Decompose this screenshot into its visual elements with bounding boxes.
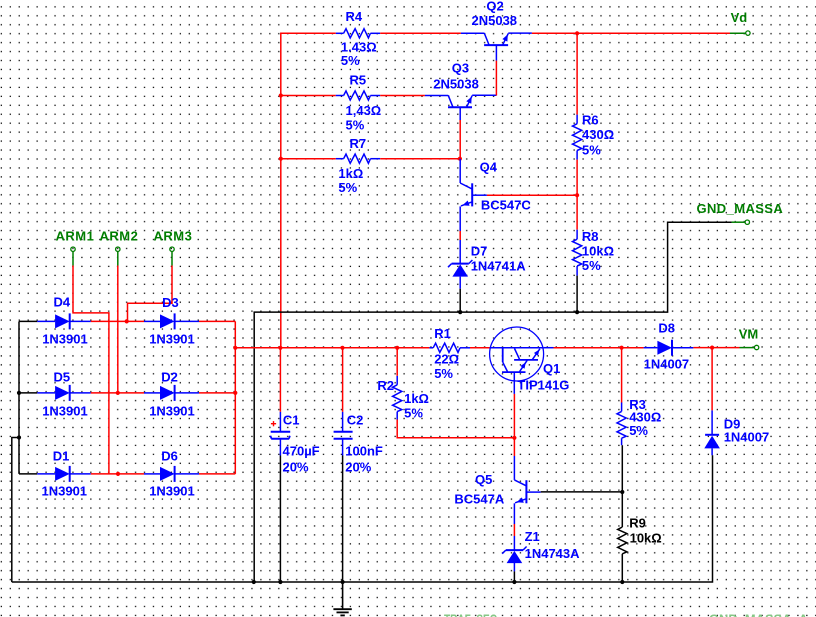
svg-text:R7: R7 bbox=[350, 136, 367, 151]
wire Q4 emitter to D7 bbox=[459, 231, 461, 240]
wire R1 to Q1 bbox=[470, 347, 490, 349]
wire row1 left stub bbox=[19, 320, 37, 322]
svg-text:1N3901: 1N3901 bbox=[149, 331, 195, 346]
wire row2 middle bbox=[91, 392, 144, 394]
svg-text:1N3901: 1N3901 bbox=[42, 403, 88, 418]
junction bbox=[116, 472, 120, 476]
svg-text:R4: R4 bbox=[346, 9, 363, 24]
svg-text:R8: R8 bbox=[582, 229, 599, 244]
wire Q3 base to R7 node bbox=[459, 120, 461, 159]
junction bbox=[620, 580, 624, 584]
diode D6 bbox=[144, 448, 199, 498]
terminal GND_MASSA bbox=[697, 201, 784, 224]
wire Vd net top-left vertical rail bbox=[280, 33, 282, 348]
svg-text:BC547C: BC547C bbox=[481, 197, 531, 212]
junction bbox=[233, 346, 237, 350]
svg-text:10kΩ: 10kΩ bbox=[630, 531, 662, 546]
wire bus to R2 bbox=[396, 348, 398, 376]
wire R3 to R9/Q5-base node bbox=[621, 445, 623, 492]
junction bbox=[278, 346, 282, 350]
svg-text:D8: D8 bbox=[658, 321, 675, 336]
svg-text:TIP141G: TIP141G bbox=[517, 378, 569, 393]
svg-text:1,43Ω: 1,43Ω bbox=[346, 103, 382, 118]
wire R7 to Q3 base node bbox=[380, 158, 460, 160]
svg-text:5%: 5% bbox=[582, 258, 601, 273]
svg-text:Q5: Q5 bbox=[475, 472, 492, 487]
junction bbox=[458, 157, 462, 161]
svg-text:5%: 5% bbox=[629, 423, 648, 438]
wire C1 to bottom bus bbox=[279, 456, 281, 583]
resistor R1 bbox=[429, 326, 470, 381]
transistor Q3 bbox=[425, 61, 497, 121]
svg-text:1N3901: 1N3901 bbox=[149, 403, 195, 418]
svg-text:R5: R5 bbox=[350, 72, 367, 87]
terminal ARM3 bbox=[154, 228, 193, 265]
wire row3 middle bbox=[91, 473, 144, 475]
svg-text:BC547A: BC547A bbox=[454, 492, 504, 507]
svg-text:1kΩ: 1kΩ bbox=[338, 166, 363, 181]
junction bbox=[125, 319, 129, 323]
wire Q5 base to R3/R9 node bbox=[541, 491, 623, 493]
wire row1 right bbox=[199, 320, 235, 322]
svg-text:5%: 5% bbox=[582, 142, 601, 157]
junction bbox=[575, 31, 579, 35]
wire ARM2 to D5/D2 row bbox=[117, 266, 119, 393]
wire R4 row left bbox=[281, 32, 336, 34]
svg-text:R2: R2 bbox=[377, 378, 394, 393]
wire R2 to Q1 emitter node bbox=[397, 420, 514, 438]
wire bus to C1 bbox=[279, 348, 281, 412]
wire bus to C2 bbox=[342, 348, 344, 412]
svg-text:D1: D1 bbox=[53, 448, 70, 463]
diode D3 bbox=[144, 295, 199, 347]
wire row1 middle bbox=[91, 320, 144, 322]
svg-text:1N4741A: 1N4741A bbox=[471, 259, 527, 274]
wire GND_MASSA net bbox=[254, 222, 731, 582]
diode D1 bbox=[37, 448, 91, 498]
svg-text:2N5038: 2N5038 bbox=[472, 13, 518, 28]
svg-text:ARM2: ARM2 bbox=[100, 228, 139, 243]
svg-text:1N3901: 1N3901 bbox=[42, 483, 88, 498]
junction bbox=[512, 436, 516, 440]
svg-text:2N5038: 2N5038 bbox=[433, 77, 479, 92]
svg-text:Q4: Q4 bbox=[480, 159, 498, 174]
wire R5 row left bbox=[281, 95, 336, 97]
wire Q1 emitter-side blue stub bbox=[544, 347, 554, 349]
svg-text:R9: R9 bbox=[629, 515, 646, 530]
transistor Q4 bbox=[460, 159, 531, 231]
svg-text:D6: D6 bbox=[161, 448, 178, 463]
diode D2 bbox=[144, 369, 199, 418]
wire ARM1 to D1/D6 row bbox=[73, 266, 109, 474]
junction bbox=[341, 580, 345, 584]
svg-text:ARM3: ARM3 bbox=[154, 228, 193, 243]
svg-text:Q2: Q2 bbox=[486, 0, 503, 14]
wire Q1 emitter bbox=[513, 394, 515, 456]
svg-text:5%: 5% bbox=[434, 366, 453, 381]
svg-text:Z1: Z1 bbox=[525, 529, 540, 544]
wire Q1 to D8/R3 node bbox=[554, 347, 644, 349]
resistor R5 bbox=[336, 72, 381, 132]
resistor R3 bbox=[617, 397, 661, 445]
wire R4 to Q2 collector bbox=[380, 32, 461, 34]
transistor Q1 bbox=[490, 327, 570, 394]
junction bbox=[116, 391, 120, 395]
resistor R6 bbox=[573, 113, 615, 160]
svg-text:1N3901: 1N3901 bbox=[149, 483, 195, 498]
svg-text:Vd: Vd bbox=[731, 10, 748, 25]
junction bbox=[17, 435, 21, 439]
wire ARM3 to D4/D3 row bbox=[128, 266, 173, 322]
svg-text:VM: VM bbox=[739, 327, 759, 342]
svg-text:D4: D4 bbox=[54, 294, 71, 309]
resistor R2 bbox=[377, 376, 429, 421]
wire Q2 base to Q3 emitter bbox=[495, 61, 497, 96]
transistor Q5 bbox=[454, 456, 540, 524]
wire R6 to R8 and Q4 base node bbox=[576, 160, 578, 230]
wire Q5 emitter to Z1 bbox=[513, 524, 515, 536]
terminal VM bbox=[739, 327, 759, 350]
svg-text:R1: R1 bbox=[434, 326, 451, 341]
capacitor C2 bbox=[334, 412, 383, 475]
resistor R8 bbox=[573, 229, 615, 275]
svg-text:GND_MASSA_A: GND_MASSA_A bbox=[709, 611, 809, 617]
terminal ARM1 bbox=[56, 228, 95, 265]
svg-text:GND_MASSA: GND_MASSA bbox=[697, 201, 784, 216]
svg-text:22Ω: 22Ω bbox=[434, 352, 459, 367]
capacitor C1 bbox=[271, 412, 320, 475]
svg-text:10kΩ: 10kΩ bbox=[582, 244, 614, 259]
diode D9 bbox=[704, 410, 769, 455]
svg-text:C1: C1 bbox=[283, 413, 300, 428]
svg-text:5%: 5% bbox=[338, 180, 357, 195]
svg-text:1N3901: 1N3901 bbox=[42, 331, 88, 346]
resistor R9 bbox=[618, 492, 662, 582]
svg-text:TRAF_SEC: TRAF_SEC bbox=[444, 611, 497, 617]
wire Vd rail to R6 bbox=[576, 33, 578, 114]
resistor R4 bbox=[336, 9, 380, 68]
junction bbox=[512, 580, 516, 584]
wire R5 to Q3 collector bbox=[380, 95, 425, 97]
wire Q2 emitter to Vd terminal bbox=[532, 32, 730, 34]
zener diode Z1 bbox=[502, 529, 580, 571]
wire R7 row left bbox=[281, 158, 336, 160]
wire bridge right rail bbox=[234, 321, 236, 474]
svg-text:5%: 5% bbox=[404, 406, 423, 421]
junction bbox=[340, 346, 344, 350]
svg-text:ARM1: ARM1 bbox=[56, 228, 95, 243]
junction bbox=[279, 157, 283, 161]
terminal ARM2 bbox=[100, 228, 139, 265]
junction bbox=[17, 391, 21, 395]
zener diode D7 bbox=[448, 240, 526, 289]
wire main output bus bbox=[235, 347, 429, 349]
svg-text:1N4007: 1N4007 bbox=[644, 356, 690, 371]
svg-text:R6: R6 bbox=[582, 113, 599, 128]
junction bbox=[620, 490, 624, 494]
wire row2 right bbox=[199, 392, 235, 394]
diode D4 bbox=[37, 294, 91, 346]
svg-text:100nF: 100nF bbox=[345, 443, 383, 458]
junction bbox=[278, 580, 282, 584]
svg-text:20%: 20% bbox=[283, 459, 309, 474]
wire row3 left stub bbox=[19, 473, 37, 475]
wire D7 anode to ground line bbox=[459, 289, 461, 312]
svg-text:5%: 5% bbox=[341, 53, 360, 68]
resistor R7 bbox=[336, 136, 380, 195]
svg-text:D3: D3 bbox=[162, 295, 179, 310]
junction bbox=[458, 310, 462, 314]
junction bbox=[710, 346, 714, 350]
svg-text:D7: D7 bbox=[471, 243, 488, 258]
wire row2 left stub bbox=[19, 392, 37, 394]
svg-text:Q1: Q1 bbox=[543, 361, 560, 376]
wire row3 right bbox=[199, 473, 235, 475]
junction bbox=[575, 310, 579, 314]
junction bbox=[575, 193, 579, 197]
wire Z1 to bottom bus bbox=[513, 571, 515, 582]
svg-text:C2: C2 bbox=[347, 413, 364, 428]
svg-text:20%: 20% bbox=[345, 459, 371, 474]
wire C2 to bottom bus bbox=[342, 456, 344, 583]
ground bbox=[333, 582, 351, 615]
junction bbox=[620, 346, 624, 350]
svg-text:1N4743A: 1N4743A bbox=[525, 546, 581, 561]
junction bbox=[233, 391, 237, 395]
wire bridge left rail bbox=[18, 321, 20, 474]
diode D5 bbox=[37, 369, 91, 418]
svg-text:430Ω: 430Ω bbox=[582, 127, 614, 142]
junction bbox=[395, 346, 399, 350]
svg-text:470µF: 470µF bbox=[283, 443, 320, 458]
wire VM node to D9 bbox=[711, 348, 713, 411]
junction bbox=[279, 93, 283, 97]
wire R8 to ground line bbox=[576, 276, 578, 313]
terminal Vd bbox=[730, 10, 750, 35]
wire left rail to bottom bus bbox=[12, 438, 19, 583]
wire Q4 base to R6/R8 node bbox=[487, 194, 577, 196]
diode D8 bbox=[644, 321, 694, 372]
svg-text:1N4007: 1N4007 bbox=[724, 429, 770, 444]
wire D8 to VM node bbox=[693, 347, 739, 349]
junction bbox=[252, 580, 256, 584]
svg-text:Q3: Q3 bbox=[452, 61, 469, 76]
svg-text:1kΩ: 1kΩ bbox=[404, 391, 429, 406]
svg-text:5%: 5% bbox=[346, 118, 365, 133]
svg-text:D5: D5 bbox=[54, 369, 71, 384]
wire bottom ground bus bbox=[12, 455, 713, 582]
svg-text:D2: D2 bbox=[161, 369, 178, 384]
transistor Q2 bbox=[461, 0, 532, 61]
wire VM node to R3 bbox=[621, 348, 623, 403]
